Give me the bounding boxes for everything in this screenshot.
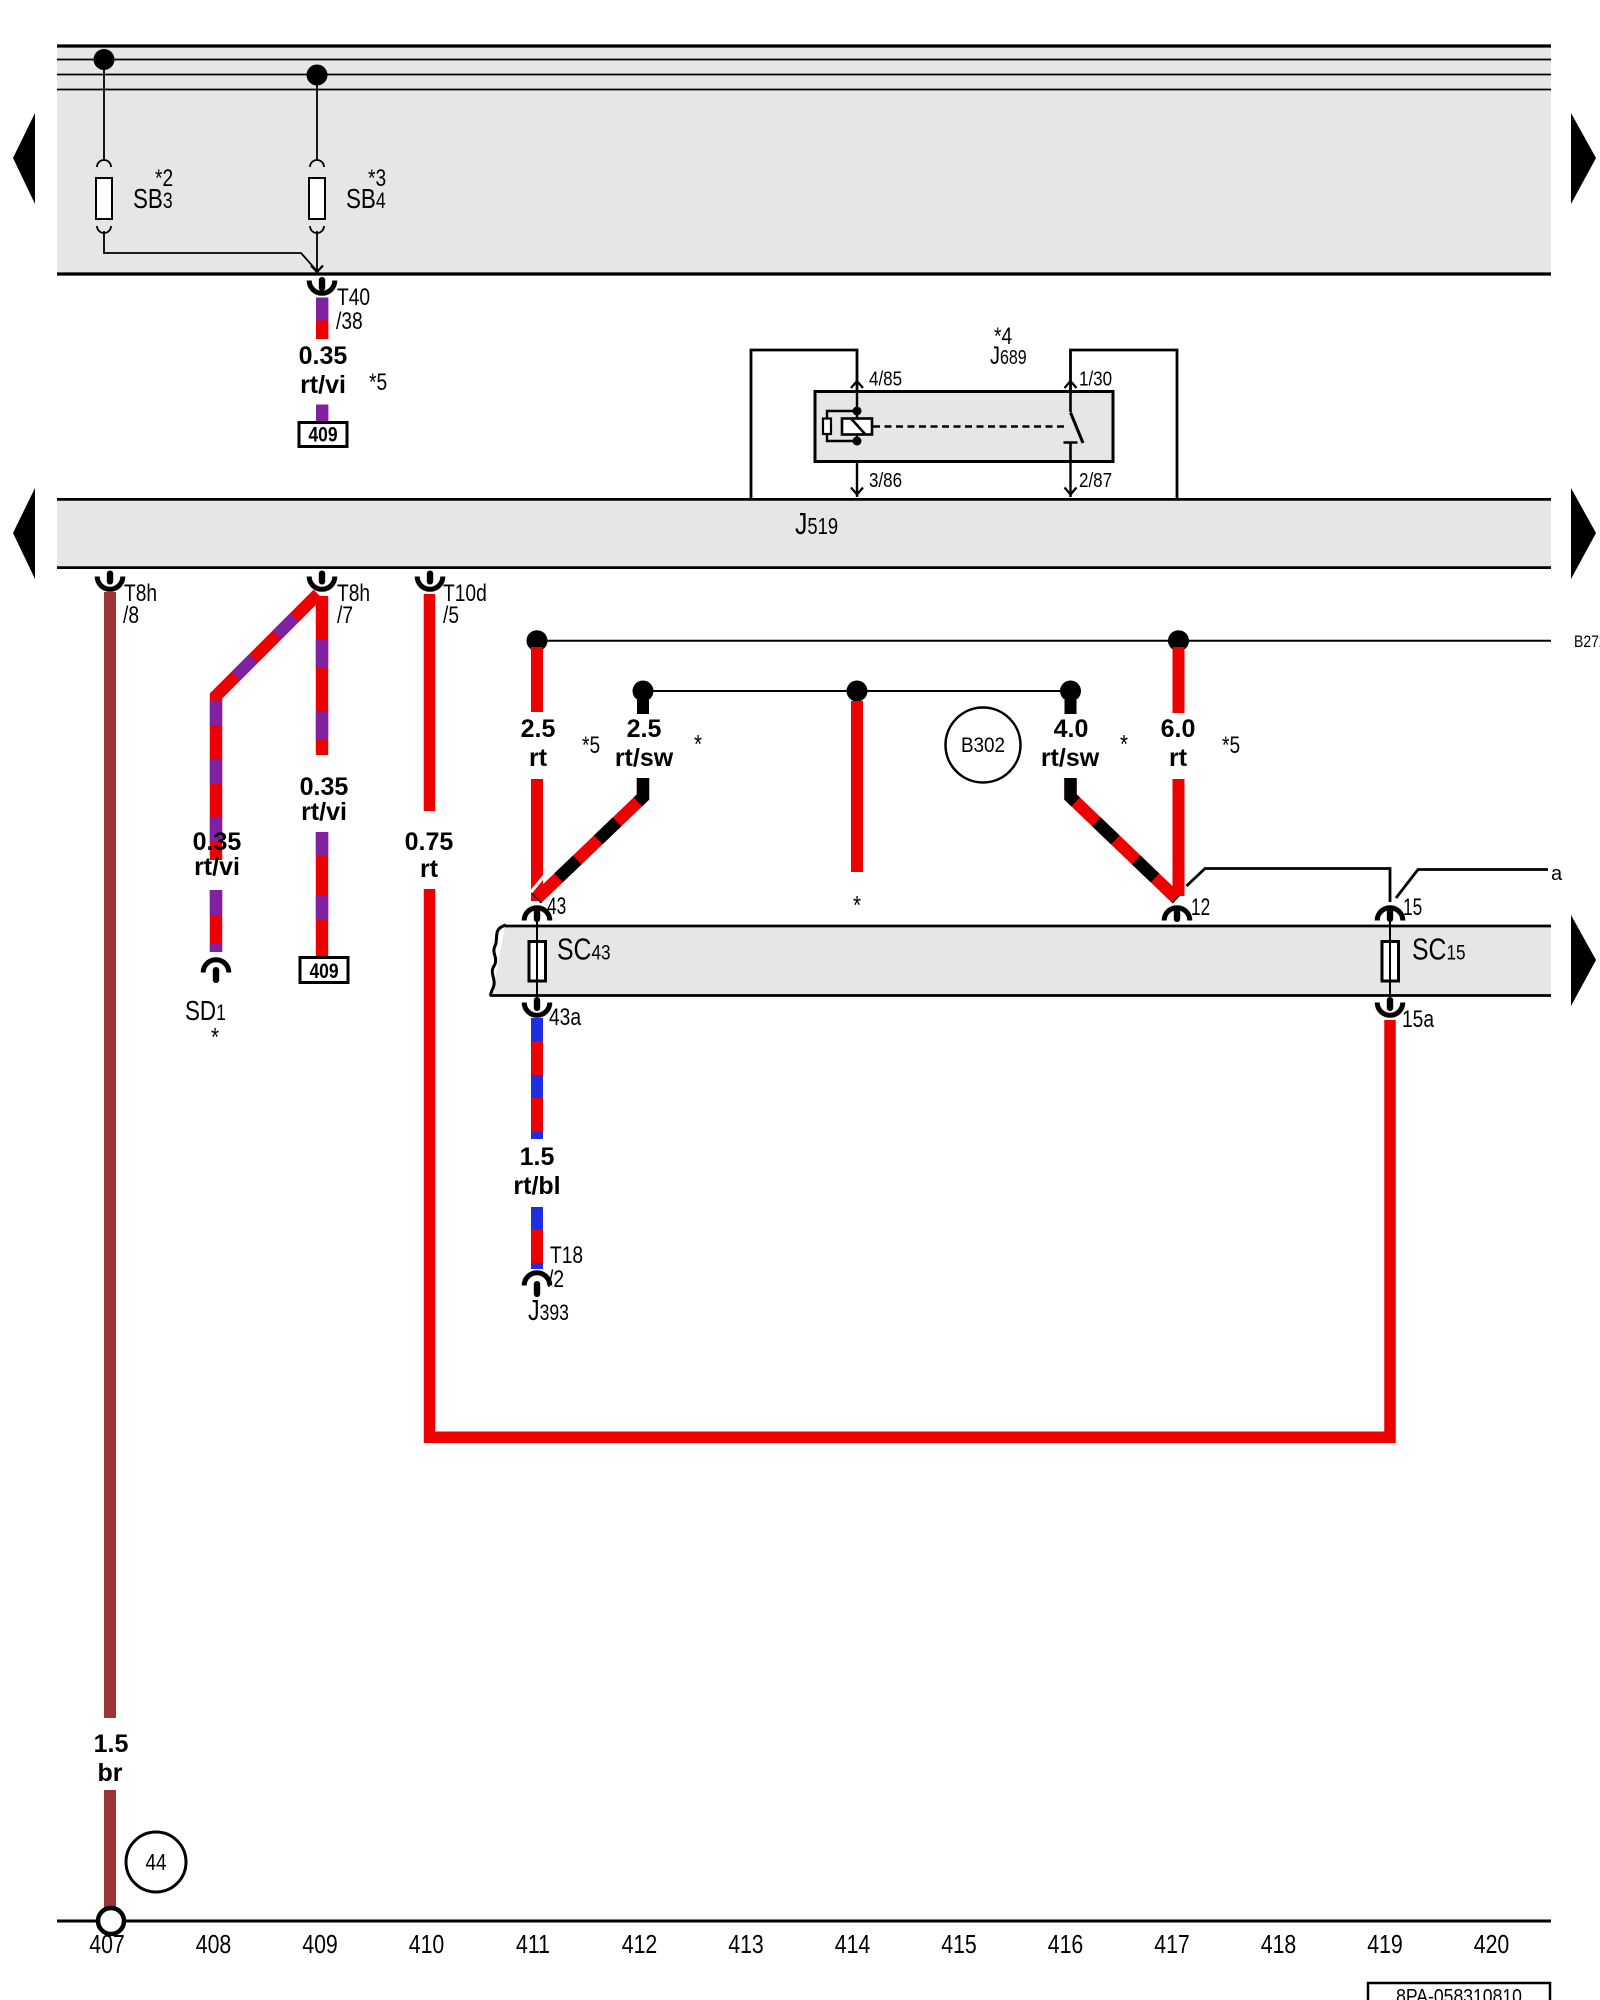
wire 2.5 rt lower segment to terminal 43 bbox=[531, 779, 543, 901]
wire pin 3/86 to J519 bbox=[856, 462, 858, 498]
svg-text:0.35: 0.35 bbox=[300, 773, 349, 801]
fuse SC15 bbox=[1382, 942, 1399, 982]
arrow into terminal T40 bbox=[311, 266, 323, 273]
arrow pin 2/87 bbox=[1065, 488, 1077, 495]
svg-text:0.75: 0.75 bbox=[405, 828, 454, 856]
wire SB4 column bbox=[316, 75, 318, 161]
terminal T18/2 socket arc bbox=[524, 1273, 550, 1286]
terminal 15 pin bbox=[1387, 906, 1393, 922]
svg-text:15: 15 bbox=[1403, 894, 1422, 920]
terminal T10d/5 socket arc bbox=[417, 577, 443, 590]
wire 6.0 rt upper stub bbox=[1173, 647, 1185, 713]
wire 0.35 rt/vi branch to SD1 (diagonal+vertical) bbox=[216, 594, 318, 860]
svg-text:/38: /38 bbox=[336, 307, 363, 335]
terminal T40/38 pin bbox=[319, 277, 325, 291]
svg-text:4.0: 4.0 bbox=[1054, 715, 1089, 743]
svg-text:/8: /8 bbox=[123, 601, 139, 629]
svg-text:44: 44 bbox=[146, 1850, 167, 1875]
svg-text:1/30: 1/30 bbox=[1079, 367, 1112, 390]
terminal 15a pin bbox=[1387, 997, 1393, 1011]
svg-text:rt: rt bbox=[529, 744, 548, 772]
svg-text:a: a bbox=[1551, 863, 1563, 885]
terminal 15 socket arc bbox=[1377, 908, 1403, 921]
page edge arrow right SC band bbox=[1571, 915, 1596, 1006]
terminal SD1 socket arc bbox=[203, 960, 229, 973]
svg-text:rt/bl: rt/bl bbox=[513, 1172, 560, 1200]
svg-text:0.35: 0.35 bbox=[193, 828, 242, 856]
bus rail bbox=[57, 74, 1551, 76]
page edge arrow left top bbox=[13, 113, 35, 204]
svg-text:0.35: 0.35 bbox=[299, 342, 348, 370]
battery/fuse-carrier band (top bus bars) bbox=[57, 47, 1551, 274]
wire 4.0 rt/sw diagonal to terminal 12 bbox=[1071, 778, 1178, 899]
connector bump below SB4 bbox=[310, 226, 324, 233]
wire 0.75 rt upper segment bbox=[424, 594, 436, 811]
svg-text:SD1: SD1 bbox=[185, 996, 226, 1027]
node junction on rail (SB3 feed) bbox=[94, 49, 115, 70]
wire loop right of relay J689 bbox=[1071, 350, 1178, 498]
svg-text:*: * bbox=[694, 730, 702, 759]
arrow pin 4/85 bbox=[851, 381, 863, 388]
terminal 12 socket arc bbox=[1164, 908, 1190, 921]
svg-text:3/86: 3/86 bbox=[869, 469, 902, 492]
wire option stub red at node 414 bbox=[851, 701, 863, 872]
switch blade bbox=[1071, 413, 1084, 444]
page edge arrow left J519 bbox=[13, 488, 35, 579]
wire SB4 down to band exit bbox=[316, 231, 318, 272]
control unit J519 band bbox=[57, 498, 1551, 569]
svg-text:/7: /7 bbox=[337, 601, 353, 629]
wire 0.75 rt long run down right and up to SC15 15a bbox=[430, 889, 1391, 1437]
svg-text:409: 409 bbox=[308, 424, 337, 447]
destination box 409 (second) bbox=[300, 958, 348, 983]
arrow pin 1/30 bbox=[1065, 381, 1077, 388]
svg-text:*5: *5 bbox=[369, 368, 387, 396]
ground connection circle bbox=[98, 1908, 124, 1934]
node line B272 (terminal 30 distribution) bbox=[537, 640, 1551, 642]
wire through fuse SC43 bbox=[536, 920, 538, 997]
white gap between 6.0rt and 4.0rt/sw at terminal 12 bbox=[1163, 869, 1183, 891]
wire stub into destination box 409 bbox=[316, 405, 328, 423]
fuse SB3 bbox=[96, 178, 112, 219]
wire SB3 column bbox=[103, 60, 105, 162]
ground reference line (bottom) bbox=[57, 1920, 1551, 1923]
svg-text:*: * bbox=[211, 1023, 219, 1052]
coil feed wire pin 4/85 bbox=[856, 392, 858, 442]
bus rail bbox=[57, 89, 1551, 91]
svg-text:/5: /5 bbox=[443, 601, 459, 629]
svg-text:43a: 43a bbox=[549, 1003, 582, 1031]
svg-text:B302: B302 bbox=[961, 734, 1005, 757]
svg-text:417: 417 bbox=[1154, 1930, 1190, 1960]
junction dot 6.0rt bbox=[1168, 630, 1189, 651]
connector bump below SB3 bbox=[97, 226, 111, 233]
terminal 12 pin bbox=[1174, 906, 1180, 922]
relay J689 body bbox=[815, 392, 1113, 462]
svg-text:409: 409 bbox=[309, 961, 338, 984]
svg-text:411: 411 bbox=[516, 1930, 550, 1960]
coil junction dot top bbox=[853, 407, 862, 416]
node junction on rail (SB4 feed) bbox=[307, 65, 328, 86]
switch contact T bbox=[1064, 443, 1078, 462]
white gap between 2.5rt and 2.5rt/sw at terminal 43 bbox=[531, 869, 550, 892]
svg-text:6.0: 6.0 bbox=[1161, 715, 1196, 743]
svg-text:419: 419 bbox=[1367, 1930, 1403, 1960]
ground point circle 44 bbox=[126, 1832, 186, 1892]
svg-text:rt/sw: rt/sw bbox=[615, 744, 674, 772]
svg-text:SB4: SB4 bbox=[346, 184, 386, 215]
fuse SB4 bbox=[309, 178, 325, 219]
connector bump above SB4 bbox=[310, 160, 324, 167]
terminal 15a socket arc bbox=[1377, 1003, 1403, 1016]
terminal 43a pin bbox=[534, 997, 540, 1011]
terminal 43 socket arc bbox=[524, 908, 550, 921]
terminal T8h/8 socket arc bbox=[97, 577, 123, 590]
sensor B302 circle bbox=[946, 708, 1021, 783]
wire through fuse SC15 bbox=[1389, 920, 1391, 997]
svg-text:J393: J393 bbox=[528, 1293, 569, 1326]
svg-text:1.5: 1.5 bbox=[520, 1143, 555, 1171]
coil resistor element bbox=[823, 419, 831, 435]
svg-text:4/85: 4/85 bbox=[869, 367, 902, 390]
wire pin 2/87 to J519 bbox=[1069, 462, 1071, 498]
svg-text:414: 414 bbox=[835, 1930, 871, 1960]
fuse box SC band bbox=[492, 927, 1551, 995]
wire 1.5 br upper run bbox=[104, 592, 116, 1718]
junction dot 4.0rt/sw bbox=[1060, 681, 1081, 702]
svg-text:420: 420 bbox=[1474, 1930, 1510, 1960]
svg-text:rt/vi: rt/vi bbox=[301, 798, 347, 826]
svg-text:416: 416 bbox=[1048, 1930, 1084, 1960]
svg-text:rt/sw: rt/sw bbox=[1041, 744, 1100, 772]
svg-text:br: br bbox=[98, 1759, 123, 1787]
terminal T8h/7 pin bbox=[319, 571, 325, 585]
wire 4.0 rt/sw black stub at node bbox=[1065, 700, 1077, 714]
coil bracket bbox=[827, 411, 857, 441]
svg-text:408: 408 bbox=[196, 1930, 232, 1960]
svg-text:418: 418 bbox=[1261, 1930, 1297, 1960]
continuation wire from terminal 12 to terminal 15 bbox=[1187, 869, 1391, 903]
svg-text:*5: *5 bbox=[1222, 731, 1240, 759]
wire 0.35 rt/vi lower segment to box 409 bbox=[316, 832, 328, 958]
wire 2.5 rt/sw black stub at node bbox=[637, 700, 649, 714]
svg-text:B272: B272 bbox=[1574, 633, 1600, 651]
svg-text:*: * bbox=[853, 891, 861, 920]
svg-text:415: 415 bbox=[941, 1930, 977, 1960]
terminal T8h/8 pin bbox=[107, 571, 113, 585]
svg-text:407: 407 bbox=[89, 1930, 125, 1960]
svg-text:8PA-058310810: 8PA-058310810 bbox=[1396, 1985, 1522, 2000]
coil diagonal bbox=[851, 419, 866, 435]
svg-text:1.5: 1.5 bbox=[94, 1730, 129, 1758]
terminal T40/38 socket arc bbox=[309, 281, 335, 294]
svg-text:410: 410 bbox=[409, 1930, 445, 1960]
svg-text:rt: rt bbox=[420, 855, 439, 883]
bus rail 30 bbox=[57, 59, 1551, 61]
terminal 43 pin bbox=[534, 906, 540, 922]
wire 2.5 rt/sw diagonal to terminal 43 bbox=[537, 778, 644, 899]
page edge arrow right J519 bbox=[1571, 488, 1596, 579]
terminal T8h/7 socket arc bbox=[309, 577, 335, 590]
node line lower distribution bbox=[643, 690, 1071, 692]
wire below SB3 to junction with SB4 column bbox=[104, 231, 317, 271]
wire 6.0 rt lower segment to terminal 12 bbox=[1173, 779, 1185, 896]
svg-text:12: 12 bbox=[1191, 894, 1210, 920]
continuation wire from terminal 15 to page edge (a) bbox=[1396, 870, 1548, 899]
svg-text:2.5: 2.5 bbox=[627, 715, 662, 743]
svg-text:409: 409 bbox=[302, 1930, 338, 1960]
wire 0.35 rt/vi upper segment (red part) bbox=[316, 321, 328, 340]
wire loop left of relay J689 bbox=[751, 350, 857, 498]
wire 2.5 rt upper stub bbox=[531, 647, 543, 712]
page edge arrow right top bbox=[1571, 113, 1596, 204]
svg-text:2/87: 2/87 bbox=[1079, 469, 1112, 492]
junction dot 2.5rt/sw bbox=[633, 681, 654, 702]
svg-text:413: 413 bbox=[728, 1930, 764, 1960]
wire to SD1 lower segment bbox=[210, 890, 222, 952]
wire 1.5 rt/bl lower segment bbox=[531, 1207, 543, 1269]
terminal T10d/5 pin bbox=[427, 571, 433, 585]
actuation dashed link bbox=[873, 425, 1066, 427]
junction dot option stub bbox=[847, 681, 868, 702]
coil junction dot bottom bbox=[853, 437, 862, 446]
junction dot 2.5rt bbox=[527, 630, 548, 651]
svg-text:2.5: 2.5 bbox=[521, 715, 556, 743]
svg-text:/2: /2 bbox=[548, 1265, 564, 1293]
SC band torn left edge bbox=[490, 925, 506, 996]
svg-text:43: 43 bbox=[547, 893, 566, 919]
svg-text:SB3: SB3 bbox=[133, 184, 173, 215]
switch input wire pin 1/30 bbox=[1069, 392, 1072, 413]
svg-text:rt/vi: rt/vi bbox=[194, 853, 240, 881]
connector bump above SB3 bbox=[97, 160, 111, 167]
svg-text:*: * bbox=[1120, 730, 1128, 759]
wire 0.35 rt/vi upper segment (violet part) bbox=[316, 298, 328, 321]
drawing number box 8PA-058310810 bbox=[1368, 1983, 1550, 2000]
svg-text:412: 412 bbox=[622, 1930, 658, 1960]
wire 1.5 br lower run bbox=[104, 1790, 116, 1908]
terminal T18/2 pin bbox=[534, 1281, 540, 1297]
terminal 43a socket arc bbox=[524, 1003, 550, 1016]
destination box 409 bbox=[299, 423, 347, 447]
arrow pin 3/86 bbox=[851, 488, 863, 495]
fuse SC43 bbox=[529, 942, 546, 982]
relay coil bbox=[842, 419, 872, 435]
svg-text:*5: *5 bbox=[582, 731, 600, 759]
svg-text:rt: rt bbox=[1169, 744, 1188, 772]
wire 1.5 rt/bl upper segment bbox=[531, 1018, 543, 1139]
svg-text:rt/vi: rt/vi bbox=[300, 371, 346, 399]
terminal SD1 pin bbox=[213, 967, 219, 983]
svg-text:J689: J689 bbox=[990, 342, 1027, 370]
wire 0.35 rt/vi at T8h/7 upper segment bbox=[316, 596, 328, 755]
svg-text:15a: 15a bbox=[1402, 1005, 1435, 1033]
